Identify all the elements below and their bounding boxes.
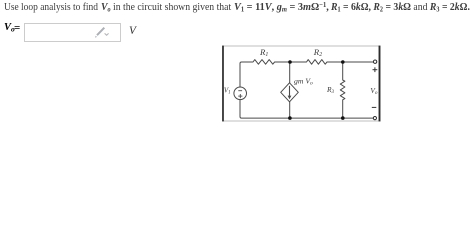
svg-text:Vo: Vo xyxy=(370,86,378,96)
svg-text:R3: R3 xyxy=(326,85,335,95)
svg-text:R1: R1 xyxy=(259,47,268,58)
svg-text:gm Vo: gm Vo xyxy=(294,76,313,86)
svg-text:R2: R2 xyxy=(313,47,322,58)
svg-text:V1: V1 xyxy=(224,87,231,96)
